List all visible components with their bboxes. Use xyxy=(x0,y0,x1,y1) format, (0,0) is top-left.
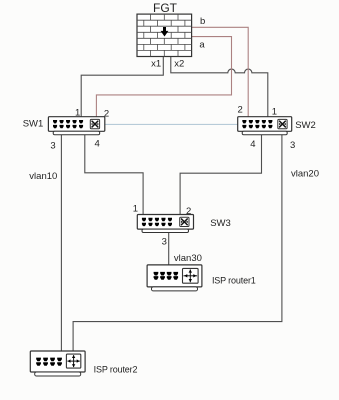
svg-text:ISP router2: ISP router2 xyxy=(94,365,138,375)
switch SW2 xyxy=(238,117,292,135)
svg-text:x1: x1 xyxy=(151,59,161,70)
svg-text:1: 1 xyxy=(133,204,138,215)
svg-text:2: 2 xyxy=(104,109,109,120)
svg-text:3: 3 xyxy=(290,140,295,151)
switch SW1 xyxy=(48,117,104,135)
svg-text:SW1: SW1 xyxy=(23,119,44,130)
wire a: FGT right to SW1 port 2 xyxy=(96,37,231,117)
svg-text:SW2: SW2 xyxy=(295,120,316,131)
svg-text:1: 1 xyxy=(75,107,80,118)
firewall FGT xyxy=(137,14,192,56)
svg-text:2: 2 xyxy=(237,104,242,115)
wire trunk: SW1 to SW2 (blue link) xyxy=(105,123,238,125)
svg-text:4: 4 xyxy=(95,139,100,150)
svg-text:vlan10: vlan10 xyxy=(29,171,57,182)
svg-text:2: 2 xyxy=(186,206,191,217)
wire x2: FGT port x2 to SW2 port 1 (with hops over a,b wires) xyxy=(171,57,268,118)
svg-text:SW3: SW3 xyxy=(210,218,231,229)
wire: SW1 port 4 to SW3 port 1 xyxy=(85,134,143,215)
svg-text:b: b xyxy=(200,16,205,27)
svg-text:a: a xyxy=(199,39,205,50)
svg-text:3: 3 xyxy=(162,237,167,248)
wire b: FGT right to SW2 port 2 xyxy=(192,27,249,117)
svg-text:ISP router1: ISP router1 xyxy=(212,275,256,285)
svg-text:3: 3 xyxy=(50,141,55,152)
svg-text:vlan30: vlan30 xyxy=(174,253,202,264)
switch SW3 xyxy=(137,215,193,233)
svg-text:1: 1 xyxy=(272,107,277,118)
wire vlan10: SW1 port 3 to ISP router2 xyxy=(60,134,62,352)
svg-text:FGT: FGT xyxy=(153,1,178,15)
wire vlan30: SW3 port 3 to ISP router1 xyxy=(168,233,170,266)
router ISP router2 xyxy=(30,351,85,376)
svg-text:vlan20: vlan20 xyxy=(291,169,319,180)
wire vlan20: SW2 port 3 to ISP router2 xyxy=(73,134,282,352)
wire x1: FGT port x1 to SW1 port 1 xyxy=(81,57,163,118)
svg-text:4: 4 xyxy=(250,139,255,150)
svg-text:x2: x2 xyxy=(174,59,184,70)
wire: SW2 port 4 to SW3 port 2 xyxy=(180,134,261,215)
router ISP router1 xyxy=(147,265,202,291)
